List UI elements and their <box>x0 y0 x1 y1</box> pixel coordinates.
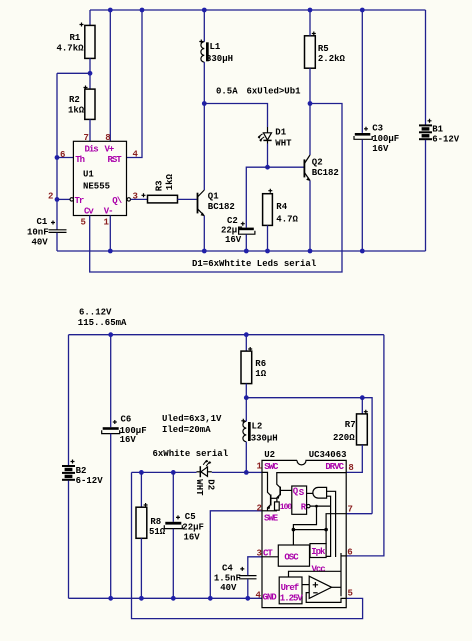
U2 internal: pin3 line <box>262 556 278 558</box>
svg-text:R4: R4 <box>276 202 287 212</box>
node junction Q1e/bottom rail <box>202 249 207 254</box>
wire pin1 stub <box>246 471 262 473</box>
node junction C6/GND rail <box>108 596 113 601</box>
svg-text:10nF: 10nF <box>27 227 49 237</box>
svg-text:330µH: 330µH <box>251 433 278 443</box>
svg-text:5: 5 <box>81 218 86 228</box>
node junction C5/D2 rail <box>171 470 176 475</box>
wire to C2 <box>246 167 267 227</box>
svg-text:7: 7 <box>348 505 353 515</box>
wire comparator output <box>332 586 341 588</box>
capacitor C4 <box>214 564 257 593</box>
svg-text:NE555: NE555 <box>83 182 110 192</box>
svg-text:1: 1 <box>257 461 263 471</box>
pin 2 inversion bubble <box>70 198 73 201</box>
node junction internal ipk <box>324 528 328 532</box>
wire C3 bottom <box>361 140 363 252</box>
wire B2 bottom <box>68 481 70 599</box>
T1 base from FF Q <box>280 489 292 491</box>
svg-text:RST: RST <box>108 155 123 165</box>
wire R3 to Q1 base <box>178 198 197 200</box>
svg-text:SWE: SWE <box>264 514 279 524</box>
svg-text:DRVC: DRVC <box>325 462 344 472</box>
wire to Q2 base <box>268 166 305 168</box>
wire C5 bottom <box>172 529 174 599</box>
svg-text:22µF: 22µF <box>221 226 243 236</box>
node junction R1/R2 <box>88 71 93 76</box>
node junction internal osc <box>292 528 296 532</box>
svg-text:2: 2 <box>48 192 53 202</box>
node junction pin4/top rail <box>140 8 145 13</box>
svg-text:L1: L1 <box>210 42 221 52</box>
svg-text:R5: R5 <box>318 44 329 54</box>
svg-text:R6: R6 <box>255 359 266 369</box>
wire Uref to comparator <box>302 584 309 586</box>
wire L2 bottom to pin1 node <box>245 442 247 473</box>
node junction R6/supply rail <box>244 332 249 337</box>
svg-text:C3: C3 <box>372 124 383 134</box>
wire junction left <box>57 72 90 74</box>
wire Vcc branch <box>340 553 342 596</box>
wire R7 top riser <box>361 398 363 414</box>
wire R8 top riser <box>140 472 142 507</box>
battery B2 <box>62 460 103 486</box>
T1 emitter <box>277 494 280 502</box>
svg-text:Tr: Tr <box>75 196 84 206</box>
wire pin7 stub <box>346 513 372 515</box>
node junction L1/top rail <box>202 8 207 13</box>
resistor R3 <box>142 173 178 202</box>
FF R inversion bubble <box>307 504 310 507</box>
FF S input stub <box>307 492 314 494</box>
svg-text:51Ω: 51Ω <box>149 527 166 537</box>
wire R8 bottom <box>140 538 142 598</box>
wire L1 bottom <box>203 62 205 190</box>
node junction Tr <box>55 197 60 202</box>
svg-text:330µH: 330µH <box>206 54 233 64</box>
resistor R5 <box>305 32 346 69</box>
wire C1 bottom <box>56 233 58 251</box>
wire D2 rail left part <box>132 471 197 473</box>
svg-text:Uref: Uref <box>281 583 299 593</box>
capacitor C2 <box>221 216 255 245</box>
node junction R8/D2 rail <box>139 470 144 475</box>
wire node line to Ipk corner <box>246 398 372 514</box>
wire pin5 Cv loop <box>90 104 342 273</box>
svg-text:Vcc: Vcc <box>312 565 326 575</box>
node junction C5/GND rail <box>171 596 176 601</box>
node junction C3/bottom rail <box>360 249 365 254</box>
svg-text:D2: D2 <box>205 479 215 490</box>
svg-text:40V: 40V <box>220 583 237 593</box>
svg-text:UC34063: UC34063 <box>309 450 347 460</box>
wire L2 top <box>245 398 247 422</box>
wire R5 top <box>309 10 311 36</box>
wire OSC row <box>293 529 326 531</box>
wire GND rail <box>69 597 263 599</box>
wire Th stub pin6 <box>57 157 73 159</box>
svg-text:Q2: Q2 <box>312 158 323 168</box>
inductor L1 <box>199 40 233 65</box>
comparator <box>309 576 331 598</box>
resistor R8 <box>136 503 166 538</box>
svg-text:Q1: Q1 <box>208 192 219 202</box>
node junction Th <box>55 155 60 160</box>
LED D1 <box>258 127 293 149</box>
svg-text:Ipk: Ipk <box>311 547 326 557</box>
svg-text:GND: GND <box>263 593 278 603</box>
svg-text:100: 100 <box>280 503 293 512</box>
svg-text:B1: B1 <box>432 124 443 134</box>
LED D2 <box>194 460 215 496</box>
T2 emitter <box>268 505 271 511</box>
node junction pin1/bottom rail <box>108 249 113 254</box>
capacitor C3 <box>354 124 399 155</box>
svg-text:1kΩ: 1kΩ <box>165 173 175 190</box>
wire R6 top <box>245 335 247 351</box>
wire left drop to B2 <box>68 335 70 466</box>
node junction R8/GND rail <box>139 596 144 601</box>
svg-text:U2: U2 <box>264 450 275 460</box>
svg-text:220Ω: 220Ω <box>333 433 355 443</box>
svg-text:4: 4 <box>256 591 262 601</box>
resistor R7 <box>333 410 368 445</box>
svg-text:R2: R2 <box>69 95 80 105</box>
wire C4 bottom <box>247 579 249 598</box>
capacitor C1 <box>27 217 67 248</box>
node junction Q2e/bottom rail <box>308 249 313 254</box>
Uref box <box>279 577 302 604</box>
svg-text:7: 7 <box>84 133 89 143</box>
wire pin8 riser <box>109 10 111 141</box>
wire Q2 collector riser <box>309 104 311 156</box>
svg-text:V+: V+ <box>105 145 114 155</box>
wire R1 to junction <box>89 58 91 89</box>
wire D2 rail right part <box>212 471 247 473</box>
wire C4 top to pin3 <box>248 557 262 575</box>
node junction D1/R4/C2/Q2base <box>265 165 270 170</box>
svg-text:22µF: 22µF <box>182 522 204 532</box>
svg-text:1kΩ: 1kΩ <box>68 105 85 115</box>
resistor R6 <box>241 347 267 384</box>
wire R6 bottom <box>245 384 247 398</box>
node junction bubble line <box>315 505 318 508</box>
svg-text:D1=6xWhtite Leds serial: D1=6xWhtite Leds serial <box>192 259 317 269</box>
wire Ipk riser <box>325 530 327 544</box>
wire pin1 V- <box>109 216 111 252</box>
svg-text:C2: C2 <box>227 216 238 226</box>
U2 internal: pin2 line <box>262 510 277 512</box>
node junction R6/L2/node line <box>244 395 249 400</box>
svg-text:BC182: BC182 <box>312 168 339 178</box>
svg-text:3: 3 <box>257 549 262 559</box>
inductor L2 <box>241 419 277 444</box>
svg-text:6: 6 <box>60 150 65 160</box>
svg-text:SWC: SWC <box>264 462 279 472</box>
AND gate <box>313 487 327 498</box>
svg-text:1: 1 <box>104 218 110 228</box>
U2 internal: pin1 line to T2 collector <box>262 472 271 495</box>
wire L1 top <box>203 10 205 42</box>
U2 internal: pin8 line to T1 collector <box>277 473 346 488</box>
wire bubble junction to OSC <box>293 506 316 545</box>
svg-text:6..12V: 6..12V <box>79 308 112 318</box>
svg-text:6: 6 <box>347 547 352 557</box>
wire supply rail <box>69 334 384 336</box>
flip-flop box <box>292 486 307 514</box>
svg-text:B2: B2 <box>76 466 87 476</box>
OSC box <box>278 545 309 566</box>
svg-text:16V: 16V <box>372 144 389 154</box>
wire Tr stub pin2 <box>57 198 70 200</box>
resistor R2 <box>68 86 95 120</box>
svg-text:16V: 16V <box>225 235 242 245</box>
pin 3 inversion bubble <box>127 198 130 201</box>
wire to D1 <box>204 104 267 128</box>
node junction C3/top rail <box>360 8 365 13</box>
wire Q1 emitter down <box>203 216 205 251</box>
svg-text:D1: D1 <box>275 128 286 138</box>
svg-text:5: 5 <box>348 589 353 599</box>
wire C6 top <box>110 335 112 428</box>
wire R bubble line <box>310 505 331 507</box>
node junction C4/GND rail <box>245 596 250 601</box>
node junction R7 top <box>360 395 365 400</box>
svg-text:C5: C5 <box>185 512 196 522</box>
svg-text:WHT: WHT <box>194 479 204 496</box>
wire R7 bottom to pin8 <box>346 445 362 473</box>
wire pin3 to R3 <box>131 198 148 200</box>
node junction SWE/GND rail <box>208 596 213 601</box>
wire C5 top riser <box>172 472 174 521</box>
svg-text:40V: 40V <box>32 238 49 248</box>
wire pin2 SWE to GND <box>210 511 262 599</box>
svg-text:V-: V- <box>104 207 113 217</box>
AND input top to pin7 line <box>327 491 336 557</box>
svg-text:100µF: 100µF <box>372 134 399 144</box>
svg-text:BC182: BC182 <box>208 202 235 212</box>
wire Vcc line to Uref <box>289 571 342 577</box>
svg-text:16V: 16V <box>184 533 201 543</box>
wire B1 bottom <box>425 140 427 251</box>
svg-text:4.7Ω: 4.7Ω <box>276 215 298 225</box>
svg-text:4: 4 <box>133 150 139 160</box>
svg-text:0.5A: 0.5A <box>216 87 238 97</box>
svg-text:115..65mA: 115..65mA <box>78 318 127 328</box>
svg-text:8: 8 <box>105 133 110 143</box>
wire R2 to pin7 <box>89 119 91 141</box>
wire pin7 corner down <box>326 514 346 530</box>
svg-text:1.25V: 1.25V <box>280 593 304 603</box>
svg-text:WHT: WHT <box>275 139 292 149</box>
svg-text:C6: C6 <box>121 415 132 425</box>
battery B1 <box>419 119 460 145</box>
transistor T2 (switch) <box>270 495 272 506</box>
wire top rail <box>90 9 426 11</box>
svg-text:1Ω: 1Ω <box>255 369 266 379</box>
node junction C6/supply rail <box>108 332 113 337</box>
node junction R5/top rail <box>308 8 313 13</box>
svg-text:4.7kΩ: 4.7kΩ <box>57 43 85 53</box>
svg-text:Dis: Dis <box>85 145 99 155</box>
transistor T1 (driver) <box>279 487 281 496</box>
svg-text:C4: C4 <box>222 564 233 574</box>
svg-text:R8: R8 <box>150 517 161 527</box>
svg-text:6xUled>Ub1: 6xUled>Ub1 <box>247 87 302 97</box>
op-amp U2 UC34063 box <box>262 450 347 608</box>
svg-text:6-12V: 6-12V <box>76 476 104 486</box>
resistor R1 <box>57 23 96 59</box>
svg-text:2: 2 <box>257 504 262 514</box>
transistor Q1 BC182 <box>198 190 235 216</box>
svg-text:U1: U1 <box>83 170 94 180</box>
svg-text:R1: R1 <box>70 33 81 43</box>
svg-text:C1: C1 <box>37 217 48 227</box>
svg-text:R3: R3 <box>154 180 164 191</box>
resistor 100 <box>275 502 280 510</box>
node junction C2/bottom rail <box>244 249 249 254</box>
wire R5 bottom <box>309 68 311 103</box>
svg-text:16V: 16V <box>120 435 137 445</box>
wire pin6 stub inside <box>341 555 346 557</box>
wire D1 cathode down <box>267 144 269 168</box>
wire C2 bottom <box>245 234 247 251</box>
svg-text:OSC: OSC <box>284 552 299 562</box>
wire rail riser to pin6 <box>346 335 384 556</box>
wire feedback x131.5 <box>132 472 363 618</box>
svg-text:Iled=20mA: Iled=20mA <box>162 425 211 435</box>
wire pin5 to comparator inverting input <box>306 593 346 603</box>
wire x57 drop <box>56 73 58 229</box>
resistor R4 <box>263 189 299 226</box>
capacitor C6 <box>102 415 147 445</box>
transistor Q2 BC182 <box>304 155 338 181</box>
wire C3 top <box>361 10 363 133</box>
svg-text:Uled=6x3,1V: Uled=6x3,1V <box>162 414 222 424</box>
wire pin4 RST <box>127 10 143 158</box>
svg-text:L2: L2 <box>252 421 263 431</box>
T2 base link <box>271 497 277 499</box>
wire C6 bottom <box>110 434 112 599</box>
svg-text:8: 8 <box>348 463 353 473</box>
svg-text:Th: Th <box>75 155 84 165</box>
op-amp U1 NE555 box <box>73 141 126 216</box>
svg-text:6xWhite serial: 6xWhite serial <box>153 449 229 459</box>
wire bottom rail <box>57 250 426 252</box>
Ipk box <box>310 544 326 558</box>
svg-text:2.2kΩ: 2.2kΩ <box>318 54 346 64</box>
svg-text:R7: R7 <box>345 420 356 430</box>
wire R4 bottom <box>267 225 269 251</box>
node junction R4/bottom rail <box>265 249 270 254</box>
wire B1 top <box>425 10 427 125</box>
capacitor C5 <box>164 512 204 542</box>
wire left drop to R1 <box>89 10 91 25</box>
node junction L2/pin1/D2 rail <box>244 470 249 475</box>
node junction L1/D1 row <box>202 101 207 106</box>
wire Q2 emitter down <box>309 181 311 252</box>
node junction R5/Q2 collector <box>308 101 313 106</box>
AND input bottom to Ipk <box>326 496 331 556</box>
svg-text:6-12V: 6-12V <box>432 135 460 145</box>
node junction pin8/top rail <box>108 8 113 13</box>
